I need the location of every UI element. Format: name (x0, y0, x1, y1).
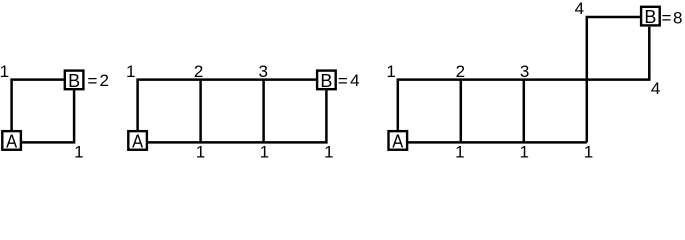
svg-text:A: A (6, 131, 17, 151)
wire A right along bottom (diagram 3) (408, 141, 587, 144)
node B box (diagram 3) (641, 7, 660, 26)
svg-text:1: 1 (196, 142, 205, 161)
wire interior vertical 2 (diagram 2) (199, 80, 202, 143)
wire A right along bottom then up to B bottom (diagram 2) (148, 90, 326, 142)
svg-text:4: 4 (651, 79, 660, 98)
svg-text:1: 1 (260, 142, 269, 161)
svg-text:2: 2 (194, 62, 203, 81)
wire interior vertical 3 (diagram 2) (262, 80, 265, 143)
svg-text:1: 1 (519, 142, 528, 161)
wire tall vertical up then right to B left (diagram 3) (587, 17, 640, 142)
svg-text:=: = (661, 9, 671, 28)
svg-text:A: A (392, 131, 403, 151)
node A box (diagram 3) (389, 131, 408, 150)
wire interior vertical 3 (diagram 3) (523, 80, 526, 143)
wire A up-left corner along top then up to B bottom (diagram 3) (398, 27, 650, 131)
wire A up-left corner to B left (diagram 1) (12, 80, 64, 131)
svg-text:1: 1 (324, 142, 333, 161)
svg-text:=: = (338, 71, 348, 90)
node B box (diagram 2) (317, 71, 336, 90)
svg-text:4: 4 (575, 0, 584, 18)
wire A up-left corner along top to B left (diagram 2) (138, 80, 316, 131)
svg-text:B: B (644, 7, 656, 27)
node B box (diagram 1) (65, 71, 84, 90)
svg-text:B: B (68, 71, 80, 91)
svg-text:4: 4 (350, 71, 359, 90)
svg-text:1: 1 (126, 62, 135, 81)
svg-text:=: = (87, 71, 97, 90)
svg-text:B: B (320, 71, 332, 91)
svg-text:3: 3 (258, 62, 267, 81)
svg-text:1: 1 (455, 142, 464, 161)
svg-text:1: 1 (386, 62, 395, 81)
svg-text:8: 8 (673, 9, 682, 28)
svg-text:1: 1 (74, 142, 83, 161)
svg-text:2: 2 (456, 62, 465, 81)
svg-text:A: A (132, 131, 143, 151)
svg-text:2: 2 (99, 71, 108, 90)
node A box (diagram 1) (2, 131, 21, 150)
svg-text:3: 3 (520, 62, 529, 81)
wire interior vertical 2 (diagram 3) (460, 80, 463, 143)
svg-text:1: 1 (584, 142, 593, 161)
wire A right along bottom then up to B bottom (diagram 1) (22, 90, 74, 142)
svg-text:1: 1 (0, 62, 9, 81)
node A box (diagram 2) (128, 131, 147, 150)
